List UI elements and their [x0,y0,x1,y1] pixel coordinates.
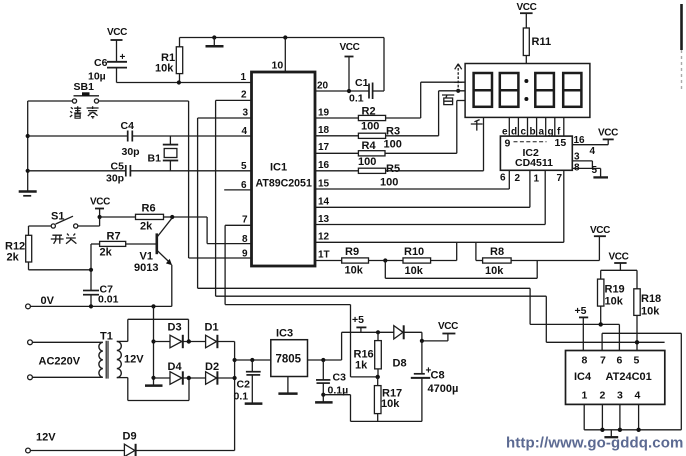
capacitor C3 [316,360,348,402]
svg-text:10k: 10k [381,398,400,410]
svg-text:C4: C4 [121,120,135,132]
node bridge AC2 [187,376,191,380]
wire R3 row pin18 [315,91,465,136]
svg-text:0.1: 0.1 [234,391,249,403]
VCC symbol R8 [590,225,610,261]
svg-text:2: 2 [241,90,247,101]
node bridge AC1 [187,339,191,343]
svg-text:R19: R19 [605,284,625,296]
svg-text:VCC: VCC [517,2,537,13]
node R1/pin1 [177,80,181,84]
segment letters e d c b a g f [502,127,561,138]
ground G4 under 7805 [278,377,297,394]
wire R2 row pin19 [315,82,465,118]
capacitor C6 [88,52,127,83]
wire left column [27,101,29,191]
svg-text:100: 100 [380,177,398,189]
svg-text:8: 8 [582,355,588,367]
node R19/bus1 [599,322,603,326]
svg-text:D4: D4 [168,361,183,373]
wire R9 row pin11 [315,242,457,260]
svg-text:10k: 10k [485,265,504,277]
capacitor C4 [121,120,140,158]
wire IC2 pin7 to IC1 pin12 [315,170,564,242]
node gnd rail [212,35,216,39]
svg-text:2: 2 [600,390,606,402]
svg-text:IC1: IC1 [270,162,287,174]
pin labels IC1 right [317,81,330,261]
svg-text:14: 14 [318,197,330,208]
display colon dots [524,79,528,101]
wire secondary bottom to bridge AC2 [128,378,189,401]
VCC symbol R18/R19 rail [609,252,629,271]
svg-text:R9: R9 [345,246,359,258]
svg-text:http://www.go-gddq.com: http://www.go-gddq.com [506,435,683,452]
resistor R6 [100,203,173,233]
resistor R3 [358,126,401,151]
wire R5 row pin16 [315,117,484,170]
svg-text:VCC: VCC [107,27,127,38]
node 0V/bridge [151,304,155,308]
wire pin2 [216,100,252,296]
svg-text:VCC: VCC [90,197,110,208]
VCC symbol pin20 [340,42,360,91]
svg-text:12V: 12V [124,354,144,366]
svg-text:R2: R2 [362,106,376,118]
svg-text:2: 2 [515,173,521,184]
wire IC2 pin8 to ground [572,163,600,178]
op-amp/mcu IC1 AT89C2051 [252,72,316,266]
node D4 anode [151,376,155,380]
svg-text:13: 13 [318,214,330,225]
decoder IC2 CD4511 [500,136,572,170]
svg-text:VCC: VCC [598,128,618,139]
wire pin5 row [28,170,252,172]
svg-text:100: 100 [384,139,402,151]
svg-text:AT24C01: AT24C01 [606,371,652,383]
node C3 ground branch [321,393,325,397]
svg-text:4: 4 [635,390,641,402]
resistor R17 [374,377,402,422]
node C2 top [250,358,254,362]
svg-text:20: 20 [317,81,329,92]
transformer T1 [28,331,145,380]
svg-text:C2: C2 [237,379,251,391]
wire IC2 pin1 to IC1 pin13 [315,170,545,224]
svg-text:16: 16 [574,135,586,146]
node C8 top [420,339,424,343]
node R12/R7 column [89,268,93,272]
resistor R10 [403,246,431,277]
svg-text:R7: R7 [107,231,121,243]
wire pin20 row [315,90,369,92]
VCC symbol display (R11) [517,2,537,28]
node R16 top [376,330,380,334]
wire bridge negative rail [153,306,155,385]
node IC4 pin4 rail [636,428,640,432]
scan artifact right edge [680,4,683,92]
svg-text:D2: D2 [205,361,219,373]
svg-text:S1: S1 [51,211,64,223]
wire IC2 pin2 to IC1 pin14 [315,170,530,207]
svg-text:0.1: 0.1 [349,93,364,105]
svg-text:6: 6 [500,173,506,184]
diode D2 [205,361,235,385]
svg-text:10k: 10k [605,296,624,308]
svg-text:10k: 10k [641,306,660,318]
wire SB1 right to pin9 drop [99,101,252,258]
wire bus1 pin3 to R19/IC4 pin6 [198,288,620,350]
pin labels IC1 left [241,72,249,260]
wire SB1 left [28,100,73,102]
node rectifier output [233,358,237,362]
resistor R9 [342,246,369,277]
resistor R12 [5,226,91,270]
ground G1 [206,38,224,47]
resistor R18 [634,270,661,350]
svg-text:3: 3 [574,152,580,163]
svg-text:VCC: VCC [609,252,629,263]
node IC4 pin2 rail [600,428,604,432]
node C3 top [321,358,325,362]
svg-text:VCC: VCC [340,42,360,53]
wire pin8 jog from V1 collector [172,217,251,244]
capacitor C5 [106,161,130,185]
svg-text:4: 4 [590,146,596,157]
svg-text:D1: D1 [205,322,219,334]
resistor R19 [598,270,625,324]
capacitor C2 [234,360,261,403]
wire IC4 bottom pins to rail [584,404,681,429]
svg-text:5: 5 [592,165,598,176]
svg-text:C1: C1 [355,77,369,89]
crystal B1 [148,136,179,171]
svg-text:10k: 10k [345,265,364,277]
svg-text:AC220V: AC220V [39,356,81,368]
wire IC2 pin16 to VCC [572,128,618,158]
svg-text:1: 1 [241,72,247,83]
+5 symbol at IC4 pin8 [575,305,589,351]
ground G2 [19,192,37,196]
svg-text:C8: C8 [431,370,445,382]
svg-text:SB1: SB1 [74,81,95,93]
wire 7805 output [308,359,342,361]
wire bus2 pin2 to IC4 pin5 [216,296,665,342]
wire 0V rail [26,295,172,309]
svg-text:R8: R8 [490,246,504,258]
svg-text:15: 15 [555,137,567,149]
diode D9 [123,431,235,456]
wire ground branch to bottom rail [323,395,422,422]
display digit 3 [535,73,554,107]
svg-text:B1: B1 [148,153,162,165]
svg-text:3: 3 [243,108,249,119]
wire secondary top to bridge AC1 [128,319,189,341]
capacitor C8 [411,341,459,422]
VCC symbol at S1 [90,197,110,218]
svg-text:R10: R10 [404,246,424,258]
resistor R2 [358,106,385,133]
+5 symbol [352,314,366,332]
svg-text:16: 16 [318,160,330,171]
svg-text:IC4: IC4 [574,371,592,383]
capacitor C7 [83,284,119,306]
svg-text:7: 7 [557,173,563,184]
svg-text:D3: D3 [168,322,182,334]
wire IC2 pin6 to IC1 pin15 [315,170,509,189]
resistor R8 [476,242,600,277]
node D2 cathode [233,376,237,380]
svg-text:12: 12 [318,232,330,243]
svg-text:17: 17 [318,142,330,153]
resistor R11 [523,28,551,64]
resistor R5 [358,163,400,189]
svg-text:30p: 30p [122,146,140,158]
wire R9/R10 node loop to R8 output [385,261,537,279]
label bai (hundreds) [442,95,454,105]
svg-text:6: 6 [617,355,623,367]
wire 12V backup row [26,432,125,453]
ground G8 [604,430,618,437]
node C5 left [26,169,30,173]
wire to 7805 input [235,359,271,361]
ground G6 [315,401,333,404]
node D3 anode [151,339,155,343]
transistor V1 9013 [134,218,172,307]
node C7/0V [89,304,93,308]
wire IC2 pin3 [572,152,592,169]
svg-text:5: 5 [634,355,640,367]
svg-text:30p: 30p [106,173,124,185]
svg-text:7: 7 [242,215,248,226]
switch S1 [51,211,100,229]
memory IC4 AT24C01 [566,351,665,405]
svg-text:19: 19 [318,108,330,119]
svg-text:3: 3 [617,390,623,402]
svg-text:9013: 9013 [134,262,158,274]
svg-text:0.01: 0.01 [98,294,119,306]
svg-text:T1: T1 [100,331,113,343]
svg-text:IC3: IC3 [276,328,293,340]
wire IC4 pin7 loop from bottom rail [602,333,681,430]
display digit 1 [474,73,492,107]
svg-text:2k: 2k [100,247,113,259]
svg-text:0V: 0V [41,295,55,307]
node R16/R17/bus3 [376,375,380,379]
wire pin3 [198,118,252,288]
svg-text:5: 5 [241,161,247,172]
svg-text:1k: 1k [355,360,368,372]
svg-text:7805: 7805 [276,354,302,366]
svg-text:R11: R11 [532,36,552,48]
diode D4 [154,361,206,385]
wire pin4 row [28,135,252,137]
svg-text:100: 100 [358,156,376,168]
VCC symbol top-left (C6 supply) [107,27,127,61]
display segment wires to IC2 [509,117,564,136]
svg-text:CD4511: CD4511 [515,157,553,169]
svg-text:10: 10 [272,60,284,72]
svg-text:7: 7 [600,355,606,367]
wire D8 cathode to VCC [422,321,458,341]
arrow marker at display input [454,64,462,91]
svg-text:C6: C6 [94,57,108,69]
wire 7805 output riser to +5 row [341,332,343,360]
svg-text:15: 15 [318,179,330,190]
display digit 2 [500,73,519,107]
ground G5 [245,402,263,405]
svg-text:1T: 1T [318,250,330,261]
resistor R7 [91,231,156,259]
svg-text:4: 4 [242,126,248,137]
label qian (thousands) [471,120,483,131]
wire pin6 stub [224,189,251,191]
wire positive node column [234,342,236,451]
svg-text:9: 9 [242,249,248,260]
svg-text:18: 18 [318,125,330,136]
svg-text:1: 1 [534,174,540,185]
svg-text:VCC: VCC [438,321,458,332]
svg-text:9: 9 [505,138,511,150]
svg-text:12V: 12V [36,432,56,444]
wire R7 left column with C7 [90,244,92,306]
svg-text:1: 1 [582,390,588,402]
svg-text:D8: D8 [393,358,407,370]
svg-text:R6: R6 [142,203,156,215]
svg-text:R3: R3 [386,126,400,138]
svg-text:AT89C2051: AT89C2051 [256,178,312,190]
svg-text:10k: 10k [155,63,174,75]
node VCC/R6/S1 [98,215,102,219]
svg-text:C3: C3 [333,372,347,384]
node C4 left [26,134,30,138]
display digit 4 [563,73,581,107]
node IC4 pin3 rail [618,428,622,432]
wire R4 row pin17 [315,101,465,154]
svg-text:4700µ: 4700µ [428,383,459,395]
node R18/bus2/IC4 pin5 [635,340,639,344]
wire pin10 stub [272,38,286,73]
svg-text:8: 8 [574,163,580,174]
svg-text:100: 100 [361,121,379,133]
ground G3 [145,384,163,387]
svg-text:R5: R5 [386,163,400,175]
ground G7 [593,176,608,178]
label kaiguan (switch) [51,234,77,244]
svg-text:2k: 2k [7,252,20,264]
wire pin7 [225,225,251,304]
regulator IC3 7805 [271,328,308,377]
node display input bai [456,89,460,93]
node R6/V1 collector [170,215,174,219]
diode D3 [154,322,206,349]
svg-text:C5: C5 [111,161,125,173]
svg-text:2k: 2k [140,221,153,233]
node VCC/pin20 [347,89,351,93]
svg-text:R4: R4 [362,140,377,152]
capacitor C1 [349,38,384,105]
svg-text:D9: D9 [123,431,137,443]
svg-text:VCC: VCC [590,225,610,236]
diode D1 [205,322,235,349]
wire bus3 pin7 to R16/R17 node [225,305,378,377]
display module box [465,64,590,118]
svg-text:+5: +5 [352,314,364,326]
wire R18/R19 top rail [601,269,637,271]
diode D8 [393,325,422,369]
svg-text:R18: R18 [641,293,661,305]
svg-text:+5: +5 [575,305,587,317]
resistor R1 [155,38,183,83]
svg-text:V1: V1 [140,251,153,263]
switch SB1 [72,81,99,103]
resistor R16 [354,332,382,377]
label qingling (clear) [70,106,99,118]
svg-text:10k: 10k [405,265,424,277]
wire ground rail top [180,37,385,39]
wire pin1 row [117,82,252,84]
wire +5 row [342,331,394,333]
svg-text:+: + [120,52,126,63]
node pin10 riser [283,35,287,39]
resistor R4 [358,140,385,168]
node R9/R10 [383,258,387,262]
